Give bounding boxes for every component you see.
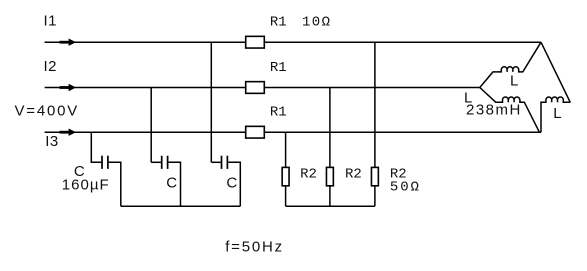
svg-text:10Ω: 10Ω xyxy=(302,15,331,31)
resistor R1 on line 1 xyxy=(246,36,265,48)
inductor L (delta edge A-B, top-left) xyxy=(480,42,541,87)
wire phase line 1 (I1) xyxy=(45,41,541,43)
inductor L (delta edge B-C, bottom-left) xyxy=(480,88,540,133)
wire phase line 2 (I2) xyxy=(45,87,480,89)
svg-text:f=50Hz: f=50Hz xyxy=(225,239,284,256)
svg-text:R1: R1 xyxy=(270,105,287,121)
current arrow I3 xyxy=(60,129,77,136)
current arrow I2 xyxy=(60,84,77,91)
wire vertical from line1 to capacitor C3 xyxy=(210,42,212,162)
resistor R2 #3 (from line 1) xyxy=(371,42,378,206)
svg-text:I2: I2 xyxy=(44,58,58,75)
svg-text:L: L xyxy=(510,73,518,90)
svg-text:238mH: 238mH xyxy=(466,102,522,119)
inductor L (delta edge C-D, bottom-right) xyxy=(541,97,570,132)
svg-text:I1: I1 xyxy=(44,13,58,30)
resistor R1 on line 3 xyxy=(246,126,265,138)
svg-text:I3: I3 xyxy=(45,133,59,150)
capacitor C3 (from line 1) xyxy=(211,156,240,207)
resistor R1 on line 2 xyxy=(246,82,265,94)
resistor R2 #1 (from line 3) xyxy=(282,132,289,206)
svg-text:R1: R1 xyxy=(270,15,287,31)
wire R2 bottom bus xyxy=(286,205,375,207)
svg-text:R2: R2 xyxy=(345,166,362,182)
wire capacitor bottom bus xyxy=(121,205,241,207)
resistor R2 #2 (from line 2) xyxy=(326,88,333,207)
svg-text:C: C xyxy=(226,175,237,192)
capacitor C2 (from line 2) xyxy=(151,156,180,207)
svg-text:160µF: 160µF xyxy=(62,176,110,193)
current arrow I1 xyxy=(60,39,77,46)
wire delta edge A-D (right diagonal) xyxy=(541,42,570,102)
svg-text:50Ω: 50Ω xyxy=(390,179,421,195)
svg-text:C: C xyxy=(166,175,177,192)
svg-text:V=400V: V=400V xyxy=(15,103,80,120)
wire phase line 3 (I3) xyxy=(45,131,541,133)
svg-text:L: L xyxy=(553,105,561,122)
svg-text:R2: R2 xyxy=(300,166,317,182)
wire vertical from line2 to capacitor C2 xyxy=(150,88,152,163)
svg-text:R1: R1 xyxy=(270,60,287,76)
capacitor C1 (from line 3) xyxy=(91,132,121,206)
